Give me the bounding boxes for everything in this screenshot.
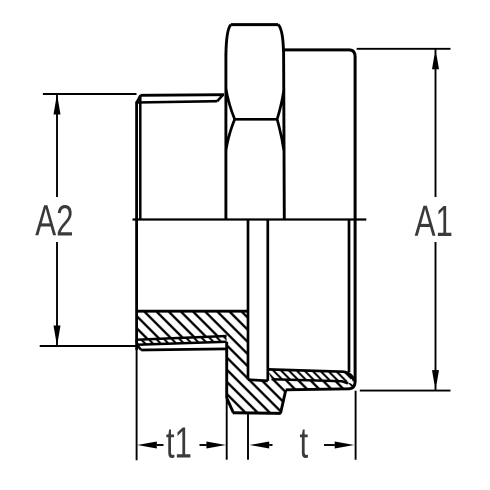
body right edge <box>354 57 357 383</box>
hex top left chamfer arc <box>226 25 231 55</box>
bore left wall <box>247 220 250 380</box>
dimension t1 right stub <box>200 444 207 446</box>
body bottom right rounded corner <box>349 382 355 389</box>
spigot inner thread line <box>139 95 142 219</box>
hex section right chamfer <box>281 390 286 414</box>
hex section left chamfer <box>227 399 233 413</box>
hex left edge <box>224 54 227 220</box>
hatched section body (left wall, hex collar section, right wall) <box>136 311 353 413</box>
left thread crest line <box>137 342 227 345</box>
right thread root line <box>272 379 348 383</box>
left wall section top edge <box>137 310 248 313</box>
dimension A1 lower shaft <box>435 242 437 391</box>
spigot top face right corner <box>217 95 223 101</box>
left thread tip cap <box>136 340 141 350</box>
dimension A2 top line <box>43 93 137 95</box>
dimension A1 upper shaft <box>435 49 437 197</box>
dimension t1 right arrowhead <box>206 442 226 449</box>
dimension t1 left arrowhead <box>137 442 157 449</box>
centre axis line <box>133 218 367 220</box>
dimension t right stub <box>324 444 335 446</box>
left thread root line <box>136 336 226 340</box>
dimension t right arrowhead <box>335 442 355 449</box>
spigot top face lower line <box>137 101 218 102</box>
hex top right chamfer arc <box>278 25 283 52</box>
hex section left edge extension line <box>226 399 228 460</box>
dimension A2 lower shaft <box>56 242 58 346</box>
dimension A2 down arrowhead <box>54 326 61 347</box>
socket inner wall line <box>348 220 351 373</box>
dimension A1 down arrowhead <box>432 370 439 391</box>
dimension t right extension line <box>355 391 357 460</box>
right wall bottom edge <box>286 389 350 390</box>
dimension A2 bottom line <box>40 345 136 347</box>
svg-text:A2: A2 <box>35 198 73 246</box>
dimension A1 top line <box>357 48 451 50</box>
dimension A1 up arrowhead <box>432 49 439 70</box>
hex section bottom edge <box>233 411 281 415</box>
dense thread hatch strip, right female thread <box>268 370 352 382</box>
svg-text:t: t <box>299 420 308 468</box>
spigot top face upper line <box>141 93 225 96</box>
bore bottom face <box>248 380 268 381</box>
bore right wall <box>266 220 269 381</box>
dimension A1 bottom line <box>360 390 451 392</box>
dimension t left extension line <box>247 414 249 460</box>
spigot top face left corner <box>137 95 141 102</box>
body top edge with rounded corner <box>284 50 355 57</box>
left wall outer surface line <box>141 349 226 350</box>
hex right edge <box>282 51 286 220</box>
dimension t1 left stub <box>157 444 164 446</box>
dimension t left stub <box>269 444 272 446</box>
svg-text:t1: t1 <box>166 420 192 468</box>
hex waist upper-right arc <box>277 90 284 120</box>
svg-text:A1: A1 <box>415 198 453 246</box>
hex waist upper-left arc <box>226 88 235 119</box>
hex section left edge <box>225 342 228 399</box>
hex waist lower-left arc <box>226 119 235 150</box>
dimension t left arrowhead <box>250 442 270 449</box>
dense thread hatch strip, left male thread <box>136 336 226 345</box>
right wall section top edge with mouth curve <box>268 369 354 381</box>
spigot outer left edge <box>135 102 138 351</box>
spigot left edge extension line <box>136 350 138 460</box>
dimension A2 up arrowhead <box>54 94 61 115</box>
hex waist lower-right arc <box>277 119 284 151</box>
hex collar top face <box>231 23 278 26</box>
hex waist line <box>235 118 277 121</box>
dimension A2 upper shaft <box>56 94 58 197</box>
